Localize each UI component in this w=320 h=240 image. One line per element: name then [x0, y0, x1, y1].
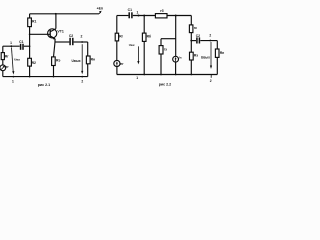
- wire emitter: [54, 39, 56, 42]
- svg-text:2: 2: [81, 79, 83, 83]
- node 2 output: [81, 41, 83, 43]
- resistor Rн load: [86, 56, 90, 64]
- +Eп supply arrow: [99, 12, 101, 14]
- wire top rail: [30, 13, 99, 15]
- node rail Rb: [143, 74, 145, 76]
- wire C2 to corner: [200, 40, 217, 42]
- node rail R2: [29, 76, 31, 78]
- svg-text:2: 2: [81, 35, 83, 39]
- capacitor C1: [128, 12, 130, 18]
- wire C2 to corner: [74, 41, 88, 43]
- svg-text:rэ: rэ: [164, 48, 167, 52]
- svg-text:C1: C1: [128, 8, 132, 12]
- resistor Rэ emitter: [52, 57, 56, 66]
- wire Re to rail: [190, 60, 192, 75]
- wire rk to C2 junction: [190, 33, 192, 41]
- wire down to Rg: [2, 46, 4, 52]
- svg-text:Uвх: Uвх: [14, 58, 20, 62]
- wire source to rail: [175, 62, 177, 74]
- svg-text:1: 1: [136, 76, 138, 80]
- wire C1 to base branch: [24, 45, 30, 47]
- transistor VT1: [48, 29, 57, 38]
- wire emitter node to Re: [54, 42, 56, 57]
- resistor Rн: [215, 49, 219, 57]
- terminal 2' tick: [210, 75, 212, 78]
- svg-text:C2: C2: [69, 34, 73, 38]
- svg-text:eг: eг: [6, 65, 10, 69]
- wire down to re: [160, 39, 162, 46]
- wire bottom ground rail: [3, 76, 88, 78]
- wire eg to rail: [116, 67, 118, 75]
- wire right branch corner: [190, 16, 192, 25]
- node rail Re: [53, 76, 55, 78]
- wire corner down to Rn: [87, 42, 89, 56]
- svg-text:1: 1: [136, 10, 138, 14]
- svg-text:rб: rб: [160, 9, 163, 13]
- svg-text:Rн: Rн: [220, 51, 224, 55]
- svg-text:VT1: VT1: [57, 29, 63, 33]
- wire re tap: [161, 38, 176, 40]
- wire Rg to eg: [2, 60, 4, 65]
- wire Re to rail: [53, 66, 55, 77]
- svg-text:Uвых: Uвых: [201, 56, 210, 60]
- source eг: [114, 60, 120, 66]
- wire re to rail: [160, 54, 162, 75]
- svg-text:2: 2: [210, 79, 212, 83]
- wire Rb to rail: [143, 41, 145, 74]
- node junction current source branch: [175, 15, 177, 17]
- wire R1 to R2: [29, 27, 31, 59]
- svg-text:рис 2.1: рис 2.1: [38, 83, 50, 87]
- wire input left branch: [116, 16, 118, 34]
- wire junction to Re: [190, 41, 192, 53]
- svg-text:rк: rк: [194, 26, 197, 30]
- svg-text:Rг: Rг: [5, 55, 9, 59]
- resistor Rг: [115, 33, 118, 41]
- node 2 rail dot: [81, 76, 83, 78]
- wire top rail: [117, 15, 129, 17]
- node 1 rail dot: [13, 76, 15, 78]
- wire base: [30, 33, 51, 35]
- wire emitter node to C2: [55, 41, 69, 43]
- svg-text:eг: eг: [120, 62, 124, 66]
- svg-text:Rэ: Rэ: [56, 58, 60, 62]
- resistor rб series box: [155, 14, 167, 18]
- wire input to C1: [3, 45, 20, 47]
- svg-text:Rг: Rг: [119, 34, 123, 38]
- node 1 input: [10, 45, 12, 47]
- node 2: [209, 40, 211, 42]
- svg-text:рис 2.2: рис 2.2: [159, 82, 171, 86]
- svg-text:+Eп: +Eп: [97, 6, 103, 10]
- capacitor C1: [20, 44, 22, 50]
- wire R2 to ground rail: [29, 66, 31, 77]
- node rail Re: [190, 74, 192, 76]
- Uвых output voltage arrow: [81, 44, 83, 71]
- svg-text:2: 2: [209, 33, 211, 37]
- svg-text:R2: R2: [32, 61, 36, 65]
- node C2 junction: [190, 40, 192, 42]
- wire corner down to Rn: [216, 41, 218, 49]
- node Rb branch: [143, 15, 145, 17]
- capacitor C2: [196, 37, 198, 43]
- svg-text:1: 1: [10, 41, 12, 45]
- wire Rg to eg: [116, 41, 118, 61]
- node 1: [138, 15, 140, 17]
- svg-text:Rб: Rб: [147, 34, 151, 38]
- svg-text:Rэ: Rэ: [194, 54, 198, 58]
- capacitor C2: [69, 38, 71, 45]
- svg-text:Iк: Iк: [179, 56, 182, 60]
- wire Rn to rail: [87, 64, 89, 77]
- resistor Rг: [1, 53, 4, 60]
- wire Rn to rail: [216, 57, 218, 74]
- resistor R1: [29, 14, 31, 18]
- resistor R2: [28, 58, 32, 66]
- node C1 tap: [29, 45, 31, 47]
- resistor Rб shunt: [142, 33, 146, 41]
- node base tap: [29, 33, 31, 35]
- node rail source: [175, 74, 177, 76]
- node collector junction: [55, 13, 57, 15]
- svg-text:Uвх: Uвх: [129, 43, 135, 47]
- wire eg to rail: [2, 71, 4, 77]
- wire C1 to rb box: [133, 15, 156, 17]
- svg-text:Rн: Rн: [91, 58, 96, 62]
- wire down to Rb: [143, 16, 145, 34]
- svg-text:1: 1: [12, 79, 14, 83]
- svg-text:R1: R1: [32, 19, 36, 23]
- svg-text:C2: C2: [196, 34, 200, 38]
- node rail re: [160, 74, 162, 76]
- svg-text:C1: C1: [19, 40, 23, 44]
- resistor Rэ output branch: [190, 52, 194, 60]
- wire rb to corner: [167, 15, 191, 17]
- resistor rэ: [159, 46, 163, 54]
- wire collector: [55, 14, 57, 29]
- resistor rк: [189, 25, 193, 33]
- wire bottom rail: [117, 74, 218, 76]
- current source: [173, 56, 179, 62]
- svg-text:Uвых: Uвых: [72, 59, 81, 63]
- source eг: [0, 65, 6, 71]
- wire to C2: [191, 40, 196, 42]
- wire current source branch: [175, 16, 177, 57]
